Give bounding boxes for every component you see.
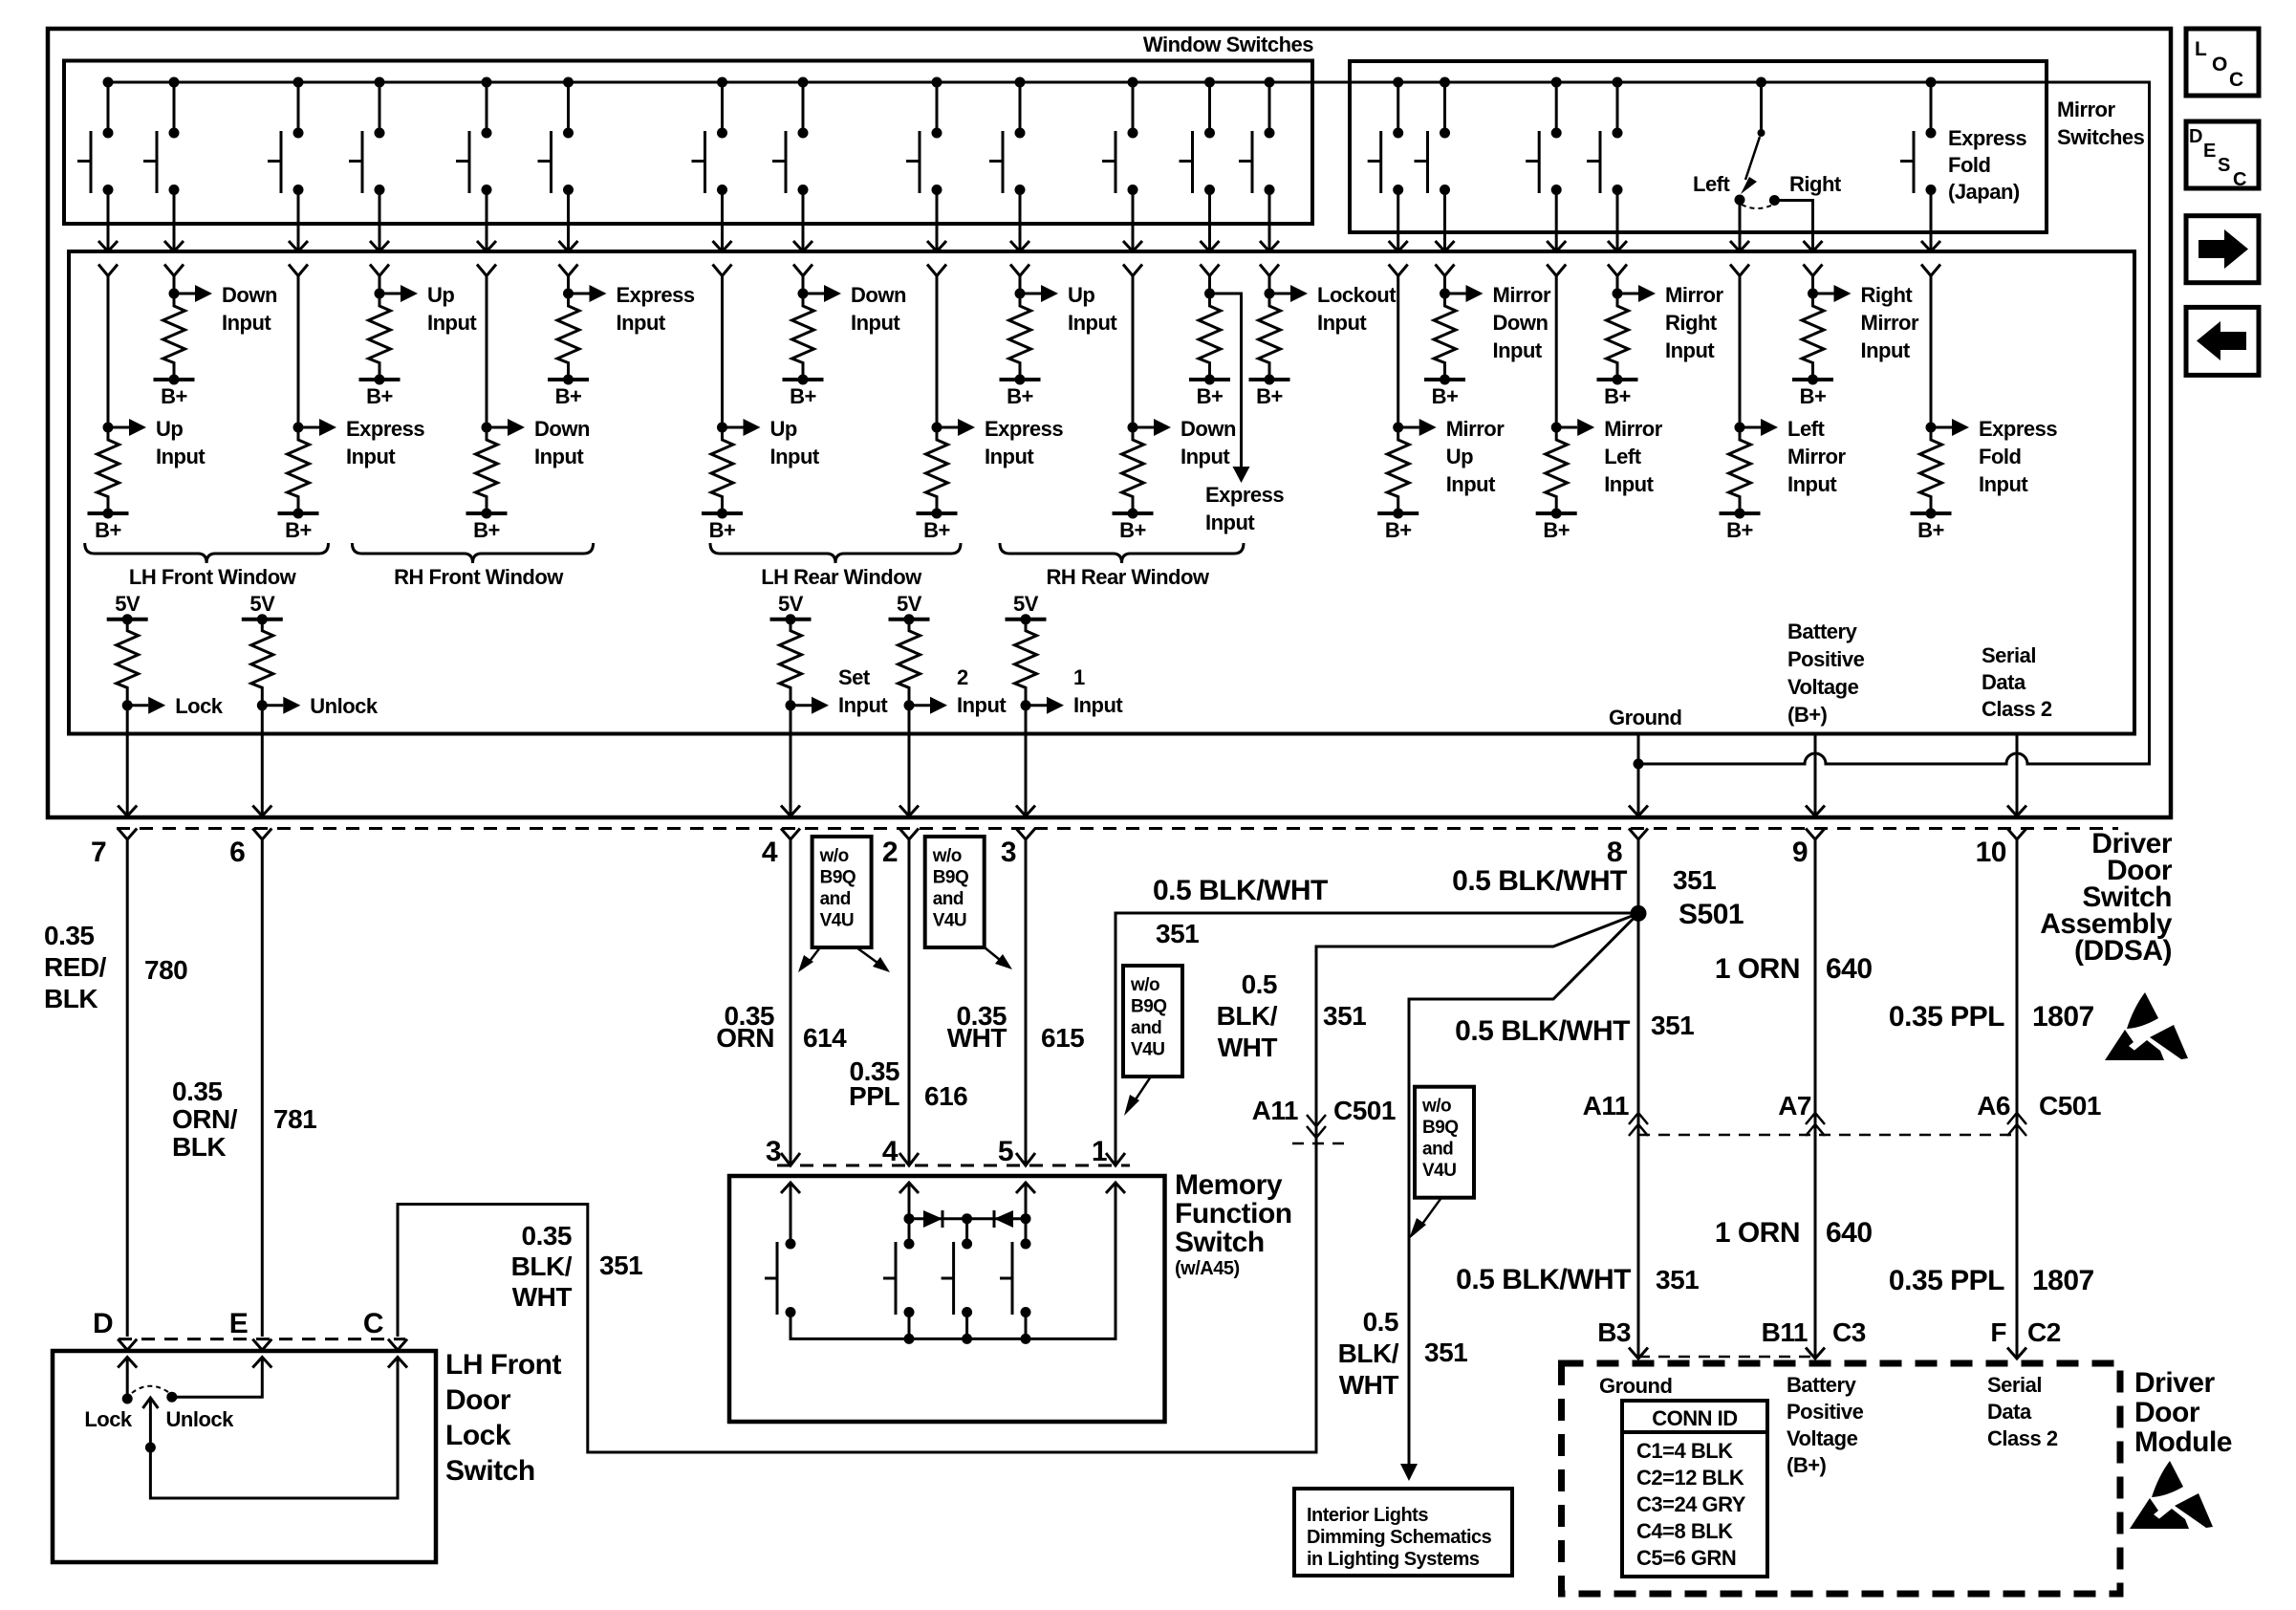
- svg-text:C1=4 BLK: C1=4 BLK: [1636, 1439, 1733, 1463]
- w/o B9Q and V4U box at 967.7,875: [925, 837, 985, 947]
- resistor Down input (row1): [154, 285, 213, 408]
- ESD symbol DDSA: [2105, 992, 2188, 1060]
- svg-text:Down: Down: [1493, 311, 1549, 335]
- window switch col x=840 (Down): [772, 77, 812, 294]
- resistor Express input (row1): [548, 285, 607, 408]
- svg-text:Driver: Driver: [2134, 1367, 2216, 1399]
- svg-text:BLK/: BLK/: [1338, 1338, 1399, 1368]
- svg-text:Mirror: Mirror: [2057, 98, 2116, 121]
- svg-text:Input: Input: [957, 693, 1007, 717]
- svg-text:Input: Input: [1861, 338, 1911, 362]
- resistor Up input (row2): [702, 419, 761, 542]
- svg-text:BLK/: BLK/: [1217, 1001, 1278, 1031]
- wire memory col 827: [790, 1183, 792, 1244]
- svg-text:Positive: Positive: [1787, 647, 1865, 671]
- svg-text:Voltage: Voltage: [1787, 1426, 1858, 1450]
- svg-text:Set: Set: [838, 665, 871, 689]
- svg-text:640: 640: [1826, 1217, 1873, 1249]
- svg-text:B9Q: B9Q: [820, 868, 856, 888]
- svg-text:4: 4: [882, 1136, 899, 1167]
- svg-text:351: 351: [1673, 865, 1716, 895]
- svg-text:Left: Left: [1693, 172, 1731, 196]
- wire: col 1899 (pin 9): [1814, 734, 1817, 816]
- svg-text:6: 6: [229, 837, 245, 868]
- resistor Down input (row1): [783, 285, 842, 408]
- svg-text:Input: Input: [617, 311, 666, 335]
- resistor Up input (row2): [88, 419, 147, 542]
- svg-text:616: 616: [924, 1081, 967, 1111]
- svg-text:0.5: 0.5: [1242, 969, 1277, 999]
- svg-text:0.5 BLK/WHT: 0.5 BLK/WHT: [1456, 1264, 1631, 1295]
- wire: col 2110 (pin 10): [2016, 734, 2019, 816]
- svg-text:Input: Input: [1068, 311, 1117, 335]
- svg-text:Mirror: Mirror: [1604, 417, 1663, 441]
- resistor Down input (row2): [466, 419, 526, 542]
- svg-text:3: 3: [766, 1136, 781, 1167]
- svg-text:0.35 PPL: 0.35 PPL: [1889, 1001, 2004, 1033]
- svg-text:Memory: Memory: [1175, 1169, 1283, 1201]
- memory push switch col 1011.6: [942, 1239, 973, 1318]
- svg-text:V4U: V4U: [933, 911, 966, 931]
- svg-text:C2=12 BLK: C2=12 BLK: [1636, 1466, 1744, 1490]
- svg-text:0.5 BLK/WHT: 0.5 BLK/WHT: [1452, 865, 1627, 897]
- wire: col 827 circuit 614 to memory switch: [790, 839, 792, 1165]
- 5V pull-up resistor x=827: [770, 592, 812, 711]
- svg-text:Switch: Switch: [445, 1455, 535, 1487]
- svg-text:A11: A11: [1252, 1096, 1298, 1125]
- wire memory col 951: [908, 1183, 911, 1244]
- svg-text:Data: Data: [1987, 1400, 2032, 1424]
- svg-text:WHT: WHT: [1339, 1370, 1399, 1400]
- svg-text:615: 615: [1041, 1023, 1084, 1053]
- svg-text:Express: Express: [1979, 417, 2057, 441]
- svg-text:Input: Input: [838, 693, 888, 717]
- svg-text:A6: A6: [1977, 1091, 2010, 1120]
- svg-text:Up: Up: [770, 417, 797, 441]
- mirror switch col x=2020: [1900, 77, 1940, 294]
- svg-text:1: 1: [1073, 665, 1085, 689]
- svg-text:B9Q: B9Q: [1131, 997, 1167, 1017]
- svg-text:0.5 BLK/WHT: 0.5 BLK/WHT: [1455, 1015, 1630, 1047]
- svg-text:C4=8 BLK: C4=8 BLK: [1636, 1519, 1733, 1543]
- svg-text:and: and: [1131, 1018, 1161, 1038]
- svg-text:and: and: [933, 889, 964, 909]
- right arrow box: [2186, 216, 2259, 283]
- resistor Up input (row1): [1000, 285, 1059, 408]
- wire memory col 1167 (common): [791, 1183, 1116, 1338]
- brace RH Front Window: [352, 543, 593, 563]
- svg-text:BLK: BLK: [172, 1132, 226, 1162]
- svg-text:Right: Right: [1789, 172, 1842, 196]
- svg-text:C3=24 GRY: C3=24 GRY: [1636, 1492, 1746, 1516]
- mirror switches box: [1350, 61, 2047, 232]
- svg-text:Lock: Lock: [175, 694, 224, 718]
- svg-text:(Japan): (Japan): [1948, 180, 2020, 204]
- 5V pull-up resistor x=274.3: [242, 592, 283, 711]
- svg-text:8: 8: [1607, 837, 1622, 868]
- svg-text:Input: Input: [1604, 472, 1654, 496]
- svg-text:Down: Down: [1180, 417, 1236, 441]
- interior lights box: [1294, 1489, 1512, 1576]
- svg-text:Down: Down: [222, 283, 277, 307]
- svg-text:and: and: [1422, 1140, 1453, 1160]
- w/o B9Q and V4U box at 1480,1136.7: [1415, 1087, 1474, 1198]
- memory push switch col 951: [883, 1239, 915, 1318]
- svg-text:Left: Left: [1604, 445, 1642, 468]
- svg-text:4: 4: [762, 837, 778, 868]
- resistor Down input (row2): [1113, 419, 1172, 542]
- resistor Express input (row2): [917, 419, 976, 542]
- svg-text:Input: Input: [851, 311, 900, 335]
- brace LH Front Window: [85, 543, 329, 563]
- svg-text:Module: Module: [2134, 1426, 2232, 1458]
- svg-text:614: 614: [803, 1023, 847, 1053]
- resistor Left Mirror input (row2): [1720, 419, 1779, 542]
- DDSA connector dashed line: [117, 827, 2118, 830]
- svg-text:C2: C2: [2027, 1317, 2061, 1347]
- svg-text:Input: Input: [427, 311, 477, 335]
- svg-text:640: 640: [1826, 953, 1873, 985]
- svg-text:0.35: 0.35: [44, 921, 95, 950]
- svg-text:Input: Input: [1180, 445, 1230, 468]
- resistor Mirror Up input (row2): [1377, 419, 1437, 542]
- svg-text:WHT: WHT: [1218, 1033, 1278, 1062]
- svg-text:351: 351: [1156, 919, 1199, 948]
- resistor Mirror Right input (row1): [1597, 285, 1657, 408]
- memory entry arrow col 1167: [1106, 1183, 1125, 1193]
- svg-text:O: O: [2212, 54, 2227, 76]
- svg-text:Input: Input: [1446, 472, 1496, 496]
- svg-text:Mirror: Mirror: [1787, 445, 1847, 468]
- svg-text:CONN ID: CONN ID: [1652, 1406, 1737, 1430]
- svg-text:Right: Right: [1665, 311, 1718, 335]
- svg-text:Mirror: Mirror: [1493, 283, 1552, 307]
- wire: 5V col 133.2 down to connector: [126, 706, 129, 815]
- memory entry arrow col 951: [899, 1183, 919, 1193]
- svg-text:1 ORN: 1 ORN: [1715, 953, 1800, 985]
- svg-text:w/o: w/o: [819, 846, 849, 866]
- wire: pin8 ground to DDM B3: [1637, 839, 1640, 1359]
- svg-text:Door: Door: [445, 1384, 511, 1416]
- svg-text:(w/A45): (w/A45): [1175, 1258, 1240, 1279]
- memory function switch box: [729, 1176, 1165, 1422]
- svg-text:in Lighting Systems: in Lighting Systems: [1307, 1549, 1480, 1570]
- svg-text:Lockout: Lockout: [1317, 283, 1397, 307]
- w/o B9Q and V4U box at 1175,1010: [1123, 966, 1182, 1077]
- svg-text:351: 351: [599, 1251, 642, 1280]
- svg-text:Window Switches: Window Switches: [1143, 33, 1313, 56]
- arrow from w/o box3: [1134, 1077, 1151, 1102]
- svg-text:0.35 PPL: 0.35 PPL: [1889, 1265, 2004, 1296]
- svg-text:V4U: V4U: [1131, 1040, 1164, 1060]
- wire: pin9 B+ to DDM B11: [1814, 839, 1817, 1359]
- svg-text:0.35: 0.35: [522, 1221, 573, 1251]
- wire col to row2: [1555, 294, 1558, 427]
- diode D2: [994, 1210, 1013, 1228]
- brace LH Rear Window: [710, 543, 961, 563]
- ESD symbol DDM: [2130, 1461, 2213, 1529]
- dashed throw arc: [132, 1386, 168, 1393]
- svg-text:RED/: RED/: [44, 952, 107, 982]
- svg-text:C501: C501: [2039, 1091, 2101, 1120]
- svg-text:Input: Input: [1979, 472, 2028, 496]
- mirror switch col x=1462.7: [1368, 77, 1408, 294]
- svg-text:BLK/: BLK/: [511, 1251, 573, 1281]
- svg-text:Ground: Ground: [1599, 1374, 1672, 1398]
- svg-text:Express: Express: [985, 417, 1063, 441]
- svg-text:WHT: WHT: [947, 1023, 1007, 1053]
- wire col to row2: [1739, 294, 1742, 427]
- svg-text:Mirror: Mirror: [1446, 417, 1505, 441]
- mirror select switch (Left/Right): [1735, 77, 1780, 209]
- svg-text:1 ORN: 1 ORN: [1715, 1217, 1800, 1249]
- svg-text:Down: Down: [534, 417, 590, 441]
- svg-text:B9Q: B9Q: [933, 868, 969, 888]
- svg-text:B11: B11: [1762, 1317, 1808, 1347]
- diode D1: [923, 1210, 942, 1228]
- DDSA outer box: [48, 29, 2171, 817]
- window switch col x=980 (Express): [906, 77, 946, 294]
- svg-text:Input: Input: [1493, 338, 1543, 362]
- svg-text:Express: Express: [346, 417, 424, 441]
- svg-text:LH Front: LH Front: [445, 1349, 561, 1381]
- wire: mirror select left output: [1739, 200, 1742, 250]
- svg-text:Function: Function: [1175, 1198, 1292, 1229]
- Driver Door Module dashed box: [1562, 1363, 2121, 1594]
- wire: col 951 circuit 616 to memory switch: [908, 839, 911, 1165]
- svg-text:780: 780: [144, 955, 187, 985]
- svg-text:Fold: Fold: [1948, 153, 1990, 177]
- diode bus: [909, 1217, 1026, 1220]
- svg-text:WHT: WHT: [512, 1282, 573, 1312]
- C501 connector chevrons: [1307, 1115, 1326, 1138]
- window switch col x=397 (Up): [349, 77, 389, 294]
- svg-text:0.35: 0.35: [172, 1077, 223, 1106]
- memory entry arrow col 827: [781, 1183, 800, 1193]
- svg-text:Express: Express: [617, 283, 695, 307]
- LH front door lock switch box: [53, 1351, 436, 1562]
- svg-text:Input: Input: [346, 445, 396, 468]
- DESC box: [2186, 121, 2259, 188]
- arrow from w/o box2: [985, 947, 1000, 960]
- svg-text:7: 7: [91, 837, 106, 868]
- door lock D contact: [118, 1358, 137, 1368]
- svg-text:Mirror: Mirror: [1665, 283, 1724, 307]
- brace RH Rear Window: [1000, 543, 1244, 563]
- wire: memory pin1 to S501: [1116, 913, 1638, 1165]
- window switch col x=1185 (Down): [1102, 77, 1142, 294]
- svg-text:S: S: [2218, 155, 2230, 176]
- svg-text:C: C: [2233, 169, 2246, 190]
- resistor Right Mirror input (row1): [1792, 285, 1852, 408]
- svg-text:Data: Data: [1982, 670, 2026, 694]
- wire: col 1714 (pin 8): [1637, 734, 1640, 816]
- wire: 5V col 951 down to connector: [908, 706, 911, 815]
- resistor express (row1, no arrow): [1189, 289, 1230, 409]
- svg-text:351: 351: [1651, 1011, 1694, 1040]
- svg-text:Input: Input: [770, 445, 820, 468]
- svg-text:(DDSA): (DDSA): [2074, 935, 2172, 967]
- svg-text:Up: Up: [156, 417, 183, 441]
- svg-text:Right: Right: [1861, 283, 1914, 307]
- svg-text:Dimming Schematics: Dimming Schematics: [1307, 1527, 1492, 1548]
- wire: col 1073 circuit 615 to memory switch: [1025, 839, 1028, 1165]
- window switch col x=182 (Down): [143, 77, 184, 294]
- svg-text:Input: Input: [222, 311, 271, 335]
- svg-text:B9Q: B9Q: [1422, 1118, 1459, 1138]
- svg-text:1807: 1807: [2032, 1001, 2094, 1033]
- resistor Express input (row2): [278, 419, 337, 542]
- svg-text:(B+): (B+): [1787, 1453, 1827, 1477]
- window switch col x=1328 (Lockout): [1239, 77, 1279, 294]
- svg-text:Left: Left: [1787, 417, 1826, 441]
- 5V pull-up resistor x=951: [889, 592, 930, 711]
- wire: pin7 to door lock D: [126, 839, 129, 1337]
- svg-text:C: C: [2229, 69, 2243, 91]
- svg-text:Down: Down: [851, 283, 906, 307]
- svg-text:5: 5: [998, 1136, 1013, 1167]
- resistor Up input (row1): [359, 285, 419, 408]
- door lock E contact: [252, 1358, 271, 1368]
- svg-text:Unlock: Unlock: [166, 1407, 235, 1431]
- mirror switch col x=1628.2: [1526, 77, 1566, 294]
- memory entry arrow col 1073: [1016, 1183, 1035, 1193]
- svg-text:V4U: V4U: [820, 911, 854, 931]
- svg-text:Ground: Ground: [1609, 706, 1681, 729]
- svg-text:Fold: Fold: [1979, 445, 2021, 468]
- svg-text:Up: Up: [1446, 445, 1473, 468]
- svg-text:0.5 BLK/WHT: 0.5 BLK/WHT: [1153, 875, 1328, 906]
- wire: pin10 serial to DDM F: [2016, 839, 2019, 1359]
- svg-text:Class 2: Class 2: [1987, 1426, 2058, 1450]
- arrow from w/o box1 right: [856, 947, 877, 963]
- svg-text:A7: A7: [1778, 1091, 1811, 1120]
- svg-text:RH Rear Window: RH Rear Window: [1046, 565, 1209, 589]
- svg-text:Lock: Lock: [84, 1407, 133, 1431]
- svg-text:Voltage: Voltage: [1787, 675, 1859, 699]
- wire: pivot to C: [150, 1358, 398, 1499]
- svg-text:L: L: [2195, 38, 2207, 60]
- svg-text:Door: Door: [2134, 1397, 2200, 1428]
- wire: express input bent arrow: [1210, 294, 1242, 467]
- wire: 5V col 827 down to connector: [790, 706, 792, 815]
- window switch col x=594.5 (Express): [538, 77, 578, 294]
- svg-text:Up: Up: [427, 283, 454, 307]
- svg-text:Serial: Serial: [1987, 1373, 2042, 1397]
- svg-text:ORN: ORN: [716, 1023, 774, 1053]
- svg-text:Class 2: Class 2: [1982, 697, 2052, 721]
- svg-text:Battery: Battery: [1787, 620, 1858, 643]
- svg-text:V4U: V4U: [1422, 1161, 1456, 1181]
- svg-text:Switches: Switches: [2057, 125, 2145, 149]
- DDM connector dashed segment: [1638, 1356, 1815, 1359]
- window switch col x=312 (Express): [268, 77, 308, 294]
- window switch col x=113 (Up): [77, 77, 118, 294]
- svg-text:E: E: [2203, 141, 2216, 162]
- svg-text:Input: Input: [1317, 311, 1367, 335]
- svg-text:E: E: [229, 1308, 249, 1339]
- svg-text:Lock: Lock: [445, 1420, 511, 1451]
- w/o B9Q and V4U box at 849.6,875: [812, 837, 872, 947]
- wire: door lock C to S501 via C501: [398, 913, 1638, 1452]
- mirror switch col x=1511.5: [1415, 77, 1455, 294]
- wire: mirror select right output: [1774, 201, 1812, 251]
- svg-text:S501: S501: [1679, 899, 1744, 930]
- resistor Mirror Down input (row1): [1424, 285, 1484, 408]
- S501 splice: [1631, 905, 1647, 922]
- svg-text:Switch: Switch: [1175, 1227, 1265, 1258]
- svg-text:1807: 1807: [2032, 1265, 2094, 1296]
- svg-text:B3: B3: [1597, 1317, 1631, 1347]
- svg-text:10: 10: [1976, 837, 2006, 868]
- wire col to row2: [1930, 294, 1933, 427]
- svg-text:D: D: [93, 1308, 113, 1339]
- svg-text:C: C: [363, 1308, 383, 1339]
- svg-text:C501: C501: [1333, 1096, 1396, 1125]
- svg-text:Input: Input: [985, 445, 1034, 468]
- svg-text:Input: Input: [1205, 511, 1255, 534]
- svg-text:Positive: Positive: [1787, 1400, 1864, 1424]
- memory push switch col 1073: [1000, 1239, 1031, 1318]
- DDSA internal resistor box: [69, 251, 2134, 734]
- svg-text:(B+): (B+): [1787, 703, 1828, 727]
- svg-text:Express: Express: [1948, 126, 2026, 150]
- svg-text:Input: Input: [1665, 338, 1715, 362]
- svg-text:1: 1: [1092, 1136, 1107, 1167]
- door lock pivot arm: [149, 1398, 152, 1447]
- svg-text:Express: Express: [1205, 483, 1284, 507]
- svg-text:Input: Input: [1073, 693, 1123, 717]
- door lock connector dashed: [119, 1338, 405, 1340]
- 5V pull-up resistor x=1073: [1006, 592, 1047, 711]
- svg-text:Up: Up: [1068, 283, 1094, 307]
- window switches box: [64, 61, 1312, 225]
- svg-text:351: 351: [1323, 1001, 1366, 1031]
- svg-text:Mirror: Mirror: [1861, 311, 1920, 335]
- svg-text:w/o: w/o: [1421, 1097, 1451, 1117]
- svg-text:Input: Input: [156, 445, 206, 468]
- svg-text:C5=6 GRN: C5=6 GRN: [1636, 1546, 1736, 1570]
- svg-text:A11: A11: [1583, 1091, 1629, 1120]
- svg-text:9: 9: [1792, 837, 1808, 868]
- LOC box: [2186, 29, 2259, 96]
- resistor lockout input: [1249, 285, 1309, 408]
- svg-text:Battery: Battery: [1787, 1373, 1857, 1397]
- svg-text:Input: Input: [1787, 472, 1837, 496]
- left arrow box: [2186, 307, 2259, 375]
- svg-text:2: 2: [882, 837, 898, 868]
- wire: 5V col 274.3 down to connector: [261, 706, 264, 815]
- svg-text:351: 351: [1424, 1338, 1467, 1367]
- svg-text:Serial: Serial: [1982, 643, 2036, 667]
- svg-text:RH Front Window: RH Front Window: [394, 565, 564, 589]
- CONN ID table: [1622, 1401, 1767, 1577]
- svg-text:351: 351: [1656, 1265, 1699, 1295]
- wire col to row2: [1397, 294, 1399, 427]
- window switch col x=1265.5 (Express bent): [1180, 77, 1220, 294]
- wire: S501 to DDM A11: [1409, 913, 1638, 1464]
- wire memory col 1073: [1025, 1183, 1028, 1244]
- window switch col x=1067 (Up): [989, 77, 1029, 294]
- svg-text:ORN/: ORN/: [172, 1104, 238, 1134]
- resistor Express Fold input (row2): [1911, 419, 1970, 542]
- svg-text:Unlock: Unlock: [310, 694, 379, 718]
- svg-text:3: 3: [1001, 837, 1016, 868]
- 5V pull-up resistor x=133.2: [107, 592, 148, 711]
- svg-text:Input: Input: [534, 445, 584, 468]
- window switch col x=755.5 (Up): [692, 77, 732, 294]
- resistor Mirror Left input (row2): [1536, 419, 1595, 542]
